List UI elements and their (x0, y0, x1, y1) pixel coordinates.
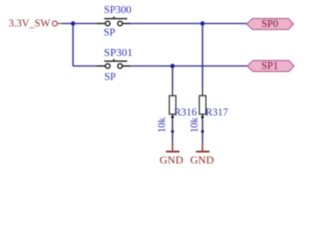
svg-text:SP300: SP300 (104, 5, 131, 16)
svg-text:SP0: SP0 (261, 19, 278, 30)
svg-text:R317: R317 (205, 108, 228, 119)
svg-text:SP1: SP1 (261, 61, 278, 72)
svg-text:10k: 10k (190, 117, 201, 133)
svg-text:GND: GND (190, 154, 214, 166)
svg-text:GND: GND (159, 154, 183, 166)
svg-text:SP: SP (104, 28, 116, 39)
svg-text:10k: 10k (157, 117, 168, 133)
svg-text:SP301: SP301 (104, 47, 133, 59)
svg-text:3.3V_SW: 3.3V_SW (9, 18, 51, 29)
svg-text:R316: R316 (174, 108, 197, 119)
svg-text:SP: SP (104, 72, 116, 83)
